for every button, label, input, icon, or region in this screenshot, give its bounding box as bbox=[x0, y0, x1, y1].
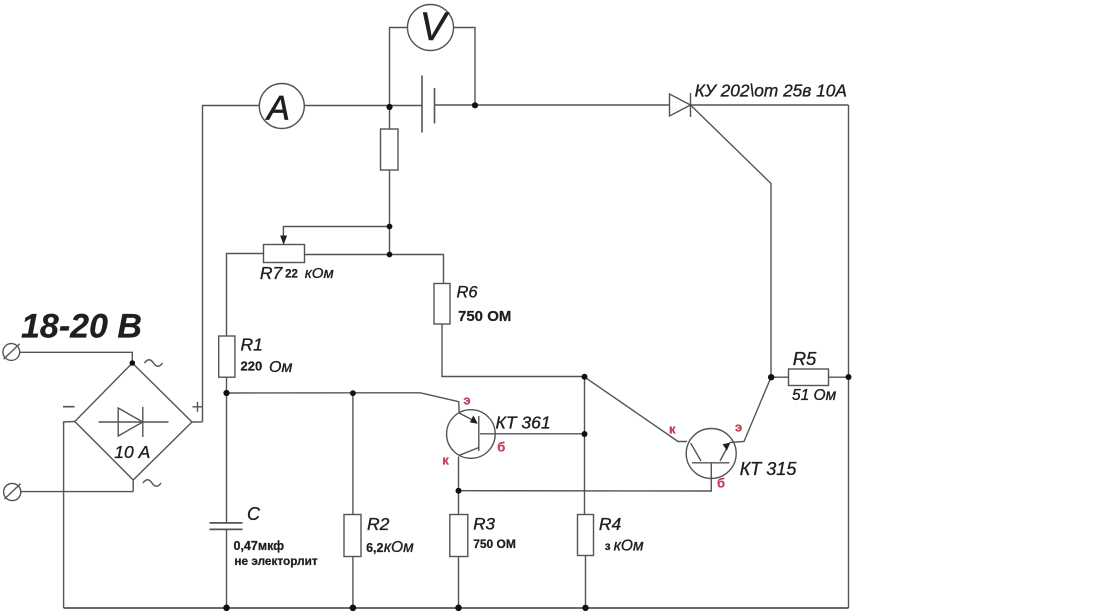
svg-text:КТ 315: КТ 315 bbox=[740, 459, 798, 479]
svg-text:R3: R3 bbox=[473, 515, 495, 534]
svg-text:кОм: кОм bbox=[305, 265, 334, 282]
svg-text:R7: R7 bbox=[260, 263, 284, 283]
svg-text:18-20 В: 18-20 В bbox=[21, 308, 142, 346]
svg-text:Ом: Ом bbox=[269, 359, 292, 376]
svg-text:6,2: 6,2 bbox=[366, 541, 383, 555]
svg-text:к: к bbox=[442, 453, 449, 468]
svg-text:кОм: кОм bbox=[384, 539, 414, 556]
svg-text:б: б bbox=[497, 440, 505, 455]
svg-text:кОм: кОм bbox=[614, 538, 644, 555]
svg-text:750 ОМ: 750 ОМ bbox=[473, 537, 516, 551]
svg-text:к: к bbox=[669, 421, 676, 436]
svg-text:51 Ом: 51 Ом bbox=[792, 387, 837, 404]
svg-text:A: A bbox=[265, 90, 290, 128]
svg-text:КТ 361: КТ 361 bbox=[496, 413, 551, 433]
svg-text:0,47мкф: 0,47мкф bbox=[234, 539, 285, 553]
svg-text:э: э bbox=[735, 420, 742, 435]
svg-text:R6: R6 bbox=[457, 284, 479, 302]
svg-text:750 ОМ: 750 ОМ bbox=[458, 308, 511, 325]
svg-text:C: C bbox=[247, 504, 261, 524]
svg-text:R5: R5 bbox=[793, 348, 817, 369]
svg-text:R2: R2 bbox=[367, 514, 390, 534]
svg-text:V: V bbox=[420, 5, 450, 49]
svg-text:э: э bbox=[463, 392, 470, 407]
svg-text:КУ 202\от 25в 10А: КУ 202\от 25в 10А bbox=[695, 81, 847, 101]
svg-text:не электорлит: не электорлит bbox=[234, 554, 317, 568]
svg-text:220: 220 bbox=[241, 359, 263, 374]
svg-text:10 А: 10 А bbox=[114, 442, 150, 462]
svg-text:R1: R1 bbox=[241, 335, 263, 355]
svg-text:R4: R4 bbox=[599, 514, 622, 534]
svg-text:22: 22 bbox=[285, 269, 298, 281]
svg-text:б: б bbox=[717, 476, 725, 491]
svg-text:з: з bbox=[605, 539, 611, 553]
